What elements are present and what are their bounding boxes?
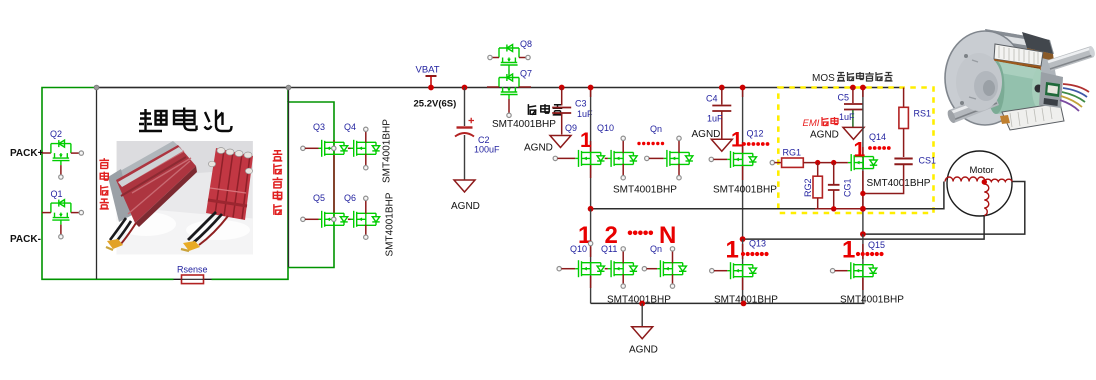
transistor Qn (high side) [645,136,693,180]
svg-text:SMT4001BHP: SMT4001BHP [613,185,677,196]
value SMT4001BHP (vertical, Q3/Q4) [382,119,393,183]
bottom white mesh [1002,103,1064,130]
svg-text:C5: C5 [838,93,850,103]
svg-text:Q11: Q11 [601,244,617,254]
node junction dot leg3 top [860,85,866,91]
svg-text:CS1: CS1 [919,156,937,166]
label 1 2 ...... N (red) [578,222,676,249]
wire: leg3 lower red stubs [862,244,864,290]
svg-text:1: 1 [580,129,592,152]
svg-text:Q14: Q14 [869,132,886,142]
node dot motor center [982,179,987,184]
svg-text:EMI: EMI [803,118,820,129]
label RS1 [914,109,932,119]
wire: Q8 gate to Q7 [508,70,510,78]
value SMT4001BHP (Q14) [867,178,931,189]
svg-text:Q3: Q3 [313,122,325,132]
label Q14 [869,132,886,142]
end cap details [956,53,1002,111]
node junction dot leg1 top [588,85,594,91]
colored wires right [1060,84,1089,111]
label Q13 [749,239,766,249]
ellipsis dots (high-side row) [637,142,664,145]
right side electronics [1039,72,1063,108]
wire: PACK+ stub to Q2 [42,152,51,154]
battery protection box frame [97,88,289,280]
label RG1 [783,148,802,158]
wire: RG2/CG1 return (dark red segment on phase A bus) [815,208,863,210]
wire: phase C to motor right [863,182,1025,235]
label Motor [970,165,994,176]
svg-text:1: 1 [842,237,855,264]
label 1 (red, Q15) [842,237,855,264]
label Q10 (low) [570,244,587,254]
wire: Q1 gate down [59,225,63,239]
ground AGND (C3) [524,136,571,154]
transistor Q11 [605,247,637,289]
transistor Q2 [51,140,71,165]
transistor Q13 [710,262,757,279]
wire: leg2 lower vertical [742,239,744,303]
svg-text:Rsense: Rsense [177,265,208,275]
label RG2 (vertical) [803,178,813,197]
ellipsis dots (Q12) [742,142,769,146]
ellipsis dots (Q14) [868,146,891,150]
ground AGND (C4) [692,129,733,151]
white mesh top [994,44,1043,66]
wire: Q7 gate pin [507,99,511,118]
svg-text:Q12: Q12 [747,129,764,139]
body housing [985,29,1062,124]
svg-text:Q15: Q15 [868,240,885,250]
ellipsis dots (Q15) [856,252,884,256]
svg-text:Qn: Qn [650,244,662,254]
wire: Q2 gate down [59,165,63,179]
label Q10 [597,123,614,133]
label EMI优化 (red) [803,117,839,129]
label Q15 [868,240,885,250]
label Q2 [50,129,62,139]
capacitor C2 (electrolytic) [455,85,474,180]
node dot phase C [860,231,866,237]
node dots on phase A bus [588,206,866,212]
transistor Q1 [51,200,71,225]
label 电池均衡 (red vertical text) [99,158,109,209]
label Q3 [313,122,325,132]
label 25.2V(6S) [414,99,457,110]
transistor Q10 (high side) [605,136,637,180]
resistor RG2 [813,163,822,209]
transistor Q8 [488,45,530,70]
ground AGND (C2) [451,180,480,212]
title 锂电池 (lithium battery, drawn strokes) [139,108,232,132]
label Q8 [520,39,532,49]
resistor RG1 [770,158,803,167]
wire: leg2 lower red stubs [742,244,744,290]
wire: leg3 lower vertical [862,234,864,303]
node: VBAT main bus wire [97,87,904,89]
label VBAT [416,65,440,76]
wire: green loop around Q3-Q6 [288,88,334,268]
capacitor CG1 [828,163,840,209]
label Q11 [601,244,617,254]
svg-text:Q9: Q9 [565,123,577,133]
svg-text:SMT4001BHP: SMT4001BHP [385,192,396,256]
Q2 right pin wire and pin [71,151,84,155]
label C4 [706,94,718,104]
label 充放电保护 (red vertical text) [272,151,282,215]
node dots on gate wire [815,160,836,165]
motor M1 circle [947,151,1012,216]
wire: leg3 red stubs [862,88,864,211]
svg-text:Q4: Q4 [344,122,356,132]
svg-text:Motor: Motor [970,165,994,176]
svg-text:RG2: RG2 [803,178,813,197]
label Q1 [51,189,63,199]
label MOS外围电路推荐 [812,72,893,84]
svg-text:AGND: AGND [692,129,721,140]
value 1uF (C5) [839,112,855,122]
wire: RG1 to Q14 gate [803,162,848,164]
transistor Q6 (mirrored, back-to-back with Q5) [348,196,380,239]
node dot CS1 to leg3 [860,191,865,196]
label Q5 [313,193,325,203]
wire: green battery pack loop [42,88,288,280]
label C3 [575,99,587,109]
value SMT4001BHP (Q7/Q8) [492,119,556,130]
wire: leg1 lower red stubs [590,240,592,288]
svg-text:1uF: 1uF [839,112,855,122]
svg-text:MOS: MOS [812,73,835,84]
label C2 [478,135,490,145]
svg-text:Q1: Q1 [51,189,63,199]
wire: leg1 red stubs [590,88,592,179]
green rotor cylinder [995,61,1040,114]
svg-text:Q6: Q6 [344,193,356,203]
svg-text:SMT4001BHP: SMT4001BHP [382,119,393,183]
left pack (silver-wrapped, red cells visible) [113,141,181,183]
node dots on ground bus [639,301,746,307]
value 100uF [474,145,500,155]
svg-text:AGND: AGND [810,130,839,141]
svg-text:1: 1 [731,128,743,151]
label PACK+ [10,148,44,159]
shaft left [949,93,999,123]
svg-text:25.2V(6S): 25.2V(6S) [414,99,457,110]
ground AGND (C5) [810,127,864,140]
wire: ground bus [591,302,865,304]
svg-text:AGND: AGND [629,345,658,356]
pin: Q10 top [588,241,592,245]
wire: leg2 vertical [742,88,744,240]
svg-text:SMT4001BHP: SMT4001BHP [492,119,556,130]
svg-text:RG1: RG1 [783,148,802,158]
label Qn [650,124,662,134]
svg-text:1uF: 1uF [707,114,723,124]
node junction dot leg2 top [740,85,746,91]
wire: phase A bus to motor left [591,182,944,209]
svg-text:Q8: Q8 [520,39,532,49]
shaft right [1048,46,1094,71]
transistor Q5 [301,211,348,228]
node junction dots on box top [94,85,291,90]
svg-text:AGND: AGND [451,201,480,212]
svg-text:100uF: 100uF [474,145,500,155]
svg-text:SMT4001BHP: SMT4001BHP [713,185,777,196]
wire: leg2 red stubs [742,88,744,181]
svg-text:PACK-: PACK- [10,234,41,245]
dark cover top right [1022,32,1053,54]
wire: phase B to motor bottom [743,216,985,240]
label C5 [838,93,850,103]
photo: battery packs [106,141,253,255]
value SMT4001BHP (Q15) [840,295,904,306]
wire: leg3 vertical [862,88,864,235]
value 1uF (C4) [707,114,723,124]
svg-text:Q10: Q10 [597,123,614,133]
capacitor C3 [552,85,571,135]
value SMT4001BHP (high side row) [613,185,677,196]
svg-text:PACK+: PACK+ [10,148,44,159]
svg-text:Q13: Q13 [749,239,766,249]
wires and connectors [110,218,131,243]
Q1 right pin [71,210,84,214]
ellipsis dots (between 2 and N) [628,231,653,236]
transistor Q10 (low side) [557,260,605,277]
transistor Qn (low side) [642,247,686,289]
label 防反接 (bold) [528,104,562,115]
label 1 (red, Q14) [854,139,866,162]
label CG1 (vertical) [843,178,853,197]
label Q4 [344,122,356,132]
transistor Q3 [301,140,348,157]
label 1 (red, Q13) [726,237,739,264]
svg-text:Q10: Q10 [570,244,587,254]
label Q9 [565,123,577,133]
svg-text:AGND: AGND [524,143,553,154]
transistor Q7 (in series with VBAT bus) [487,74,531,99]
value SMT4001BHP (Q12) [713,185,777,196]
capacitor C5 [844,85,863,127]
transistor Q14 [848,154,877,171]
svg-text:C3: C3 [575,99,587,109]
label CS1 [919,156,937,166]
label PACK- [10,234,41,245]
wire: Q3/Q5 common drain red vertical [333,140,335,218]
label Qn (low) [650,244,662,254]
capacitor CS1 [863,159,913,194]
frame: yellow dashed box [778,88,933,214]
svg-text:RS1: RS1 [914,109,932,119]
svg-text:Q2: Q2 [50,129,62,139]
svg-text:1: 1 [726,237,739,264]
transistor Q12 [709,151,756,168]
svg-text:C4: C4 [706,94,718,104]
right pack (red 18650 cells, upright lean) [206,148,253,220]
capacitor C4 [712,85,731,139]
label 1 (red, Q12) [731,128,743,151]
wire: leg1 vertical (VBAT to phase A) [590,88,592,209]
ellipsis dots (Q13) [741,252,769,256]
copper winding top [994,59,1041,78]
value 1uF (C3) [577,109,593,119]
transistor Q9 [553,150,604,167]
transistor Q4 (mirrored, back-to-back with Q3) [348,127,380,170]
power symbol VBAT [426,76,437,90]
label 1 (red, Q9 leg) [580,129,592,152]
wire: leg1 lower vertical [590,209,592,304]
value SMT4001BHP (Q13) [714,295,778,306]
node dot phase B [740,236,746,242]
svg-text:VBAT: VBAT [416,65,440,76]
svg-text:1: 1 [854,139,866,162]
svg-text:C2: C2 [478,135,490,145]
svg-text:SMT4001BHP: SMT4001BHP [867,178,931,189]
value SMT4001BHP (vertical, Q5/Q6) [385,192,396,256]
ground AGND (main) [629,303,658,355]
svg-text:Q7: Q7 [520,69,532,79]
svg-text:CG1: CG1 [843,178,853,197]
wire: Q1 left stub [42,212,51,214]
label Rsense [177,265,208,275]
label Q7 [520,69,532,79]
resistor RS1 [899,88,909,158]
svg-text:Qn: Qn [650,124,662,134]
resistor Rsense [174,275,212,284]
label Q12 [747,129,764,139]
value SMT4001BHP (low row 1) [607,295,671,306]
inductor: motor windings (Y) [945,177,1012,216]
transistor Q15 [830,262,876,279]
svg-text:Q5: Q5 [313,193,325,203]
label Q6 [344,193,356,203]
